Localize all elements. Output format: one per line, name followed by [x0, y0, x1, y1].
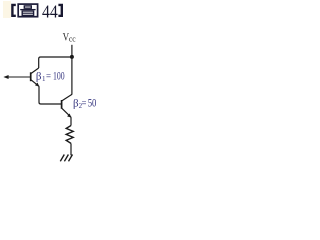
beta2 = 50 label [73, 98, 97, 110]
Q1 emitter diagonal [31, 80, 39, 87]
Q2 collector diagonal [62, 94, 72, 100]
Q1 base lead [5, 76, 31, 78]
Vcc stem and Q2 collector vertical [71, 45, 73, 95]
junction dot [70, 55, 74, 59]
Q1 collector diagonal [31, 68, 39, 74]
wire resistor to ground [70, 143, 72, 155]
svg-text:44: 44 [42, 2, 58, 22]
transistor Q1 base bar [30, 72, 32, 81]
Q2 emitter diagonal [62, 108, 71, 117]
svg-text:100: 100 [53, 71, 65, 83]
svg-text:=: = [82, 99, 87, 110]
svg-text:cc: cc [69, 33, 76, 43]
title bracket right 】 [58, 4, 63, 17]
transistor Q2 base bar [61, 100, 63, 109]
svg-text:=: = [46, 71, 51, 82]
svg-text:50: 50 [88, 98, 97, 110]
ground (hatched) [60, 155, 72, 162]
title glyph 圖 (drawn) [18, 4, 37, 17]
Q2 emitter arrowhead [67, 114, 71, 118]
background [0, 0, 111, 169]
Q1 emitter vertical down and wire to Q2 base [39, 86, 61, 104]
beta1 = 100 label [36, 71, 65, 83]
resistor RE zigzag [66, 126, 73, 144]
top rail with corner to Q1 collector [39, 57, 72, 68]
title bracket left 【 [11, 4, 16, 17]
faint scan tint top-left [3, 1, 11, 18]
input arrow [3, 75, 8, 79]
Q2 emitter vertical [70, 117, 72, 125]
svg-text:β: β [36, 71, 42, 83]
Q1 emitter arrowhead [35, 83, 39, 87]
